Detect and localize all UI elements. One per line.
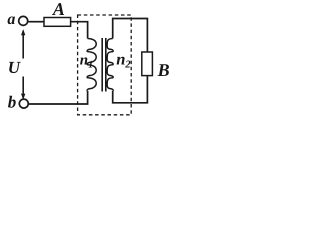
transformer core line 2	[105, 38, 107, 92]
transformer core line 1	[101, 38, 103, 92]
voltage arrow lower shaft	[22, 77, 24, 99]
svg-text:U: U	[8, 58, 21, 77]
wire n2 top to B	[113, 19, 148, 53]
wire A to n1 top	[71, 22, 88, 39]
svg-text:B: B	[157, 60, 170, 80]
svg-text:A: A	[52, 0, 65, 19]
resistor A	[44, 18, 71, 27]
dashed transformer box	[78, 15, 132, 115]
wire n1 bottom to b	[29, 91, 88, 104]
voltage arrow lower head	[21, 94, 25, 100]
terminal b	[19, 99, 28, 108]
svg-text:a: a	[7, 11, 15, 28]
voltage arrow upper shaft	[22, 31, 24, 59]
wire B bottom to n2 bottom	[113, 76, 148, 103]
secondary coil n2	[107, 39, 113, 91]
wire a to A	[28, 21, 44, 23]
terminal a	[19, 16, 28, 25]
voltage arrow upper head	[21, 29, 25, 35]
primary coil n1	[87, 39, 96, 91]
svg-text:b: b	[8, 93, 16, 112]
resistor B	[142, 52, 153, 76]
